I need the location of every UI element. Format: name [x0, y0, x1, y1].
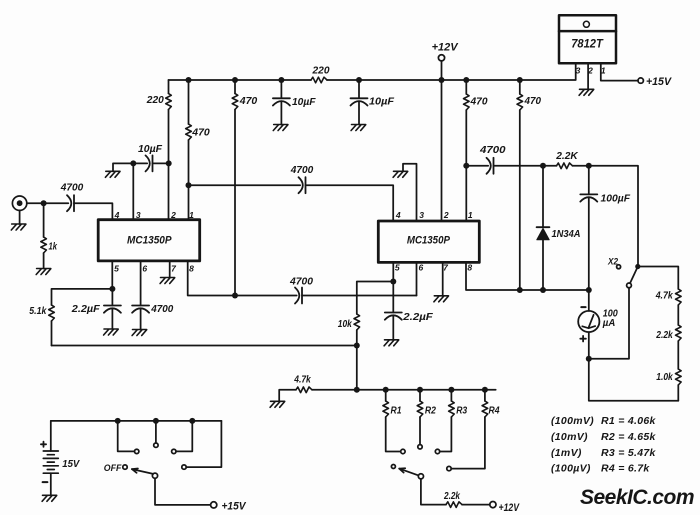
wire detector 4700 line [466, 166, 638, 267]
wire 100uF branch [588, 166, 590, 290]
resistor 470 (third vertical) [232, 94, 238, 110]
ground 10uF first [273, 125, 288, 131]
svg-text:4700: 4700 [479, 144, 506, 156]
svg-text:1k: 1k [49, 240, 58, 252]
ground IC2 pin3 [393, 171, 408, 177]
svg-text:R1: R1 [391, 405, 402, 417]
battery minus sign [43, 481, 48, 483]
capacitor 4700 detector [487, 158, 494, 174]
resistor 2.2k bottom [446, 502, 462, 508]
node interstage junction [186, 182, 192, 188]
ground 10uF second [351, 125, 366, 131]
wire 10uF AGC left to ground [113, 163, 133, 171]
meter plus sign [580, 336, 586, 342]
svg-text:220: 220 [312, 64, 330, 76]
capacitor 100uF [580, 194, 597, 201]
node pin8 line junction [232, 293, 238, 299]
node +15V terminal top [638, 78, 643, 83]
svg-text:10µF: 10µF [369, 96, 395, 108]
wire input to coupling cap [27, 202, 69, 204]
battery plus sign [41, 442, 46, 447]
resistor R1 [386, 390, 401, 452]
resistor 220 (rail horizontal) [311, 77, 327, 83]
svg-text:(1mV): (1mV) [551, 447, 582, 459]
wire 5.1k branch [52, 289, 113, 346]
diode D1 1N34A [537, 226, 550, 228]
label IC1 pin numbers bottom [114, 263, 194, 273]
svg-text:+15V: +15V [222, 500, 248, 512]
ground 4.7k rail [270, 401, 285, 407]
svg-text:(100µV): (100µV) [551, 463, 591, 475]
ground 2.2uF IC1 [104, 329, 119, 335]
svg-text:OFF: OFF [104, 463, 122, 474]
node IC2 pin5 junction [390, 279, 396, 285]
svg-text:10µF: 10µF [292, 96, 316, 108]
capacitor 10uF AGC [146, 155, 153, 171]
svg-text:2.2k: 2.2k [443, 490, 461, 502]
node AGC junctions [130, 160, 136, 166]
wire 470 branch to IC2 pin1 [465, 80, 467, 221]
resistor 4.7k rail [296, 387, 312, 393]
ground 10uF AGC [105, 171, 120, 177]
switch S1 contact 2 [155, 421, 157, 443]
node detector bus junctions [517, 287, 523, 293]
resistor 4.7k chain [676, 289, 682, 305]
node +12V terminal [438, 55, 444, 61]
wire input connector to ground [19, 210, 21, 224]
wire meter leads [589, 290, 679, 401]
resistor 2.2k chain [676, 325, 682, 341]
svg-text:R3 = 5.47k: R3 = 5.47k [601, 447, 657, 459]
wire +12V top rail [169, 63, 576, 80]
wire IC1 pin8 coupling line [188, 261, 417, 296]
svg-text:R1 = 4.06k: R1 = 4.06k [601, 415, 657, 427]
capacitor 10uF (first bypass) [273, 98, 290, 105]
node input junction [41, 200, 47, 206]
svg-text:3: 3 [576, 65, 581, 75]
switch S3 meter range [627, 283, 632, 288]
wire IC1 pin3 down [132, 163, 134, 219]
svg-text:R2: R2 [425, 405, 436, 417]
wire interstage 4700 line [189, 185, 394, 221]
svg-text:2.2K: 2.2K [555, 150, 579, 162]
resistor 10k [354, 314, 360, 330]
wire 10uF second bypass [358, 80, 360, 125]
switch S1 power rotary [152, 473, 157, 478]
svg-text:10k: 10k [338, 318, 353, 330]
node meter bottom junction [586, 356, 592, 362]
resistor 1k [41, 237, 47, 253]
switch S1 contact 4 [186, 421, 221, 467]
node +15V terminal bottom [211, 502, 217, 508]
svg-text:470: 470 [524, 95, 542, 107]
svg-text:(10mV): (10mV) [551, 431, 588, 443]
ground battery [42, 495, 57, 501]
svg-text:2.2µF: 2.2µF [71, 303, 101, 315]
regulator mounting hole [583, 21, 589, 27]
wire meter calibration rail [279, 390, 496, 402]
svg-text:4: 4 [114, 210, 120, 220]
svg-text:4: 4 [395, 210, 401, 220]
wire 10uF AGC plates [133, 162, 147, 164]
svg-text:470: 470 [470, 96, 488, 108]
node detector line junctions [463, 163, 469, 169]
switch S1 contact 3 [176, 421, 192, 452]
svg-text:10µF: 10µF [138, 143, 163, 155]
capacitor 10uF (second bypass) [351, 98, 368, 105]
meter minus sign [581, 306, 585, 308]
svg-text:1: 1 [189, 210, 194, 220]
svg-text:4700: 4700 [289, 276, 313, 288]
wire IC2 pin6 down [416, 262, 418, 295]
wire 470 branch to IC1 pin1 [188, 80, 190, 220]
svg-text:+12V: +12V [499, 502, 521, 514]
wire S1 pole to +15V [155, 478, 211, 505]
wire 7812 pin1 to +15V [601, 63, 638, 80]
svg-text:2: 2 [443, 210, 449, 220]
ground 4700 IC1 [132, 330, 147, 336]
node OFF contact [123, 465, 127, 469]
resistor 470 (fifth vertical) [517, 94, 523, 110]
wire meter switch pole [589, 288, 629, 359]
svg-text:1: 1 [601, 65, 606, 75]
svg-text:15V: 15V [62, 458, 80, 470]
svg-text:R3: R3 [456, 405, 467, 417]
battery BT1 15V [50, 421, 52, 495]
svg-text:1N34A: 1N34A [552, 228, 581, 240]
ground 7812 [579, 89, 594, 95]
capacitor 4700 input [67, 195, 74, 211]
svg-text:5: 5 [395, 262, 400, 272]
wire 220 branch left [168, 80, 170, 220]
wire 470 branch to detector line [519, 80, 521, 290]
svg-text:X2: X2 [607, 257, 618, 267]
wire IC1 pin7 ground [169, 261, 171, 278]
svg-text:MC1350P: MC1350P [407, 234, 450, 246]
svg-text:+12V: +12V [432, 42, 460, 54]
svg-text:7812T: 7812T [571, 39, 603, 51]
wire 10uF AGC right to 220 line [153, 162, 169, 164]
svg-text:SeekIC.com: SeekIC.com [580, 486, 694, 509]
ground IC2 pin7 [434, 296, 449, 302]
svg-text:6: 6 [419, 262, 424, 272]
ground 2.2uF IC2 [384, 340, 399, 346]
node battery rail junctions [115, 418, 121, 424]
meter M1 100uA [578, 311, 599, 332]
wire IC2 pin7 ground [442, 262, 444, 295]
svg-text:MC1350P: MC1350P [127, 234, 172, 246]
wire battery rail [51, 420, 222, 422]
wire IC2 pin5 junction [357, 262, 394, 389]
capacitor 4700 pin8 coupling [295, 288, 302, 304]
wire +12V to IC2 pin2 [441, 61, 443, 221]
svg-text:µA: µA [602, 317, 615, 329]
svg-text:100µF: 100µF [601, 192, 631, 204]
label IC2 pin numbers bottom [395, 262, 473, 272]
svg-text:2: 2 [170, 210, 176, 220]
connector J1 input [12, 196, 26, 210]
wire S2 pole to 2.2k [421, 479, 490, 505]
wire cap to IC1 pin4 [74, 203, 112, 220]
svg-text:8: 8 [189, 263, 194, 273]
svg-text:+15V: +15V [646, 76, 673, 88]
capacitor 4700 IC1 pin6 [140, 261, 142, 330]
resistor 1.0k chain [676, 369, 682, 385]
resistor 5.1k [49, 305, 55, 321]
svg-text:3: 3 [136, 210, 141, 220]
svg-text:5: 5 [114, 263, 119, 273]
svg-text:1: 1 [468, 210, 473, 220]
resistor R4 [451, 390, 485, 469]
svg-text:3: 3 [419, 210, 424, 220]
capacitor 2.2uF IC1 [111, 289, 113, 329]
ic U2 MC1350P body [378, 221, 479, 262]
ground input [11, 224, 26, 230]
svg-text:2.2µF: 2.2µF [402, 311, 433, 323]
svg-text:4700: 4700 [150, 303, 173, 315]
svg-text:4700: 4700 [290, 164, 314, 176]
resistor 470 (fourth vertical) [464, 94, 470, 110]
resistor 220 (left vertical) [166, 94, 172, 110]
node meter switch top junction [635, 264, 640, 269]
svg-text:470: 470 [239, 95, 258, 107]
svg-text:4700: 4700 [60, 181, 84, 193]
svg-text:2.2k: 2.2k [655, 329, 673, 341]
svg-text:R4 = 6.7k: R4 = 6.7k [601, 463, 650, 475]
wire IC2 pin8 detector bus [466, 262, 589, 290]
label IC2 pin numbers top [395, 210, 473, 220]
label IC1 pin numbers top [114, 210, 195, 220]
ground 1k [36, 269, 51, 275]
regulator U3 7812T body [559, 15, 616, 63]
node rail junctions [186, 77, 192, 83]
svg-text:4.7k: 4.7k [655, 290, 674, 302]
node IC1 pin5 junction [109, 286, 115, 292]
svg-text:1.0k: 1.0k [656, 371, 673, 383]
wire IC1 pin5 junction [111, 261, 113, 289]
ground IC1 pin7 [160, 278, 175, 284]
capacitor 2.2uF IC2 [392, 282, 394, 340]
ic U1 MC1350P body [98, 220, 200, 261]
node X2 contact [617, 265, 621, 269]
resistor 2.2K detector [557, 163, 573, 169]
wire feedback long line [52, 345, 357, 347]
wire IC2 pin3 bracket to ground [403, 164, 417, 221]
svg-text:2: 2 [587, 65, 593, 75]
wire 10uF first bypass [280, 80, 282, 125]
switch S1 contact 1 [118, 421, 135, 452]
resistor R3 [440, 390, 452, 452]
svg-text:220: 220 [146, 94, 164, 106]
wire multiplier chain [638, 267, 679, 401]
svg-text:5.1k: 5.1k [29, 305, 47, 317]
wire 7812 pin2 to ground [587, 63, 589, 89]
node meter rail junctions [354, 387, 360, 393]
svg-text:4.7k: 4.7k [293, 373, 311, 385]
svg-text:6: 6 [142, 263, 147, 273]
svg-text:R2 = 4.65k: R2 = 4.65k [601, 431, 657, 443]
svg-text:470: 470 [191, 126, 210, 138]
switch S2 range rotary [418, 474, 423, 479]
svg-text:R4: R4 [489, 405, 500, 417]
svg-text:8: 8 [467, 262, 472, 272]
resistor R2 [419, 390, 421, 445]
wire diode branch [542, 166, 544, 290]
capacitor 4700 interstage [299, 177, 306, 193]
wire 470 branch to pin8 line [234, 80, 236, 296]
resistor 470 (second vertical) [186, 124, 192, 140]
svg-text:(100mV): (100mV) [551, 415, 594, 427]
node +12V terminal bottom [490, 502, 496, 508]
node 10k bottom junction [354, 343, 360, 349]
wire 1k branch [43, 203, 45, 268]
